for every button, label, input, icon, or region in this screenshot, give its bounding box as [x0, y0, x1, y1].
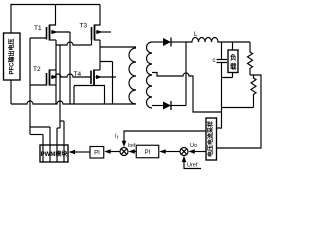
wire/arrow: current feedback down into junction1 — [122, 131, 206, 147]
arrow: PI1 to PWM — [69, 150, 91, 155]
wire: center tap with step and hop over x186, down to negative rail — [152, 73, 222, 113]
svg-text:T2: T2 — [33, 66, 41, 73]
PI controller 1 (current loop) — [90, 147, 104, 159]
wire: PWM gate stubs — [42, 135, 44, 162]
wire: load box bottom — [232, 73, 234, 78]
diode D2 — [163, 101, 186, 110]
svg-text:载: 载 — [230, 62, 237, 71]
PI controller 2 (voltage loop) — [136, 145, 159, 158]
transformer primary winding — [129, 48, 136, 104]
svg-text:Uo: Uo — [190, 143, 197, 149]
svg-text:PI: PI — [94, 151, 100, 157]
summing junction 1 (current) — [120, 148, 128, 156]
diode D1 — [163, 38, 186, 47]
arrow: sampling box to junction2 — [188, 149, 206, 154]
wire/arrow: Uref up into junction2 — [182, 156, 201, 169]
wire: diode cathode join vertical — [185, 42, 187, 106]
wire: PFC- down to bottom rail — [10, 80, 12, 104]
wire: right leg vertical T3 source to T4 drain — [99, 40, 101, 70]
resistor R2 (divider lower) — [250, 75, 256, 108]
arrow: junction1 to PI1 — [104, 149, 120, 154]
wire: PFC+ to top rail — [11, 5, 100, 34]
svg-text:PFC输出电压: PFC输出电压 — [8, 38, 16, 74]
transistor T4 — [74, 70, 116, 105]
wire: bottom rail with hops at x30 and x60 — [11, 101, 136, 104]
svg-text:PI: PI — [145, 150, 151, 156]
svg-text:T3: T3 — [80, 23, 88, 30]
load box — [228, 50, 238, 73]
wire: cap/load junction down to sampling box — [217, 78, 222, 129]
PWM module box — [40, 145, 68, 162]
svg-text:电压电流采样: 电压电流采样 — [207, 121, 215, 157]
wire: right leg mid to transformer primary top — [100, 46, 136, 48]
wire: T1 mid arrow line down to bottom rail — [69, 32, 71, 104]
summing junction 2 (voltage) — [180, 148, 188, 156]
svg-text:Uref: Uref — [187, 163, 198, 169]
svg-text:PWM模块: PWM模块 — [41, 150, 69, 158]
svg-text:Iref: Iref — [128, 143, 136, 149]
arrow: junction2 to PI2 — [159, 149, 180, 154]
inductor L — [186, 38, 250, 43]
svg-text:T1: T1 — [34, 25, 42, 32]
transformer secondary winding (center-tapped) — [147, 42, 153, 108]
capacitor C — [217, 42, 233, 78]
wire: load box top — [232, 42, 234, 50]
transistor T3 (top right switch) — [92, 5, 112, 46]
wire: divider tap to sampling box — [217, 75, 262, 148]
resistor R1 (divider upper) — [248, 42, 253, 75]
wire: gate drive drop left (T1/T2 gates) to PWM — [29, 38, 31, 135]
transistor T2 (bottom left switch) — [30, 70, 91, 86]
wire: secondary bottom to diode D2 — [152, 105, 163, 107]
arrow: PI2 to junction1 — [128, 149, 136, 154]
svg-text:c: c — [213, 58, 216, 64]
wire: T1 source / left leg down to bottom rail — [55, 40, 57, 104]
wire: secondary top to diode D1 — [152, 41, 163, 43]
sampling box (voltage/current sampling) — [206, 118, 217, 160]
wire: gate drive drop right (T3/T4 gates) to PWM — [59, 45, 61, 128]
wire: right leg jog down to bottom rail — [100, 62, 113, 105]
wire: T3 gate wire with hop at x70 — [56, 42, 92, 45]
svg-text:负: 负 — [230, 53, 237, 62]
PFC output voltage source box — [4, 33, 21, 80]
wire: divider bottom line — [222, 107, 254, 109]
svg-text:T4: T4 — [74, 71, 82, 78]
transistor T1 — [30, 5, 70, 41]
wire: T4 gate drop to bottom rail — [73, 86, 75, 104]
